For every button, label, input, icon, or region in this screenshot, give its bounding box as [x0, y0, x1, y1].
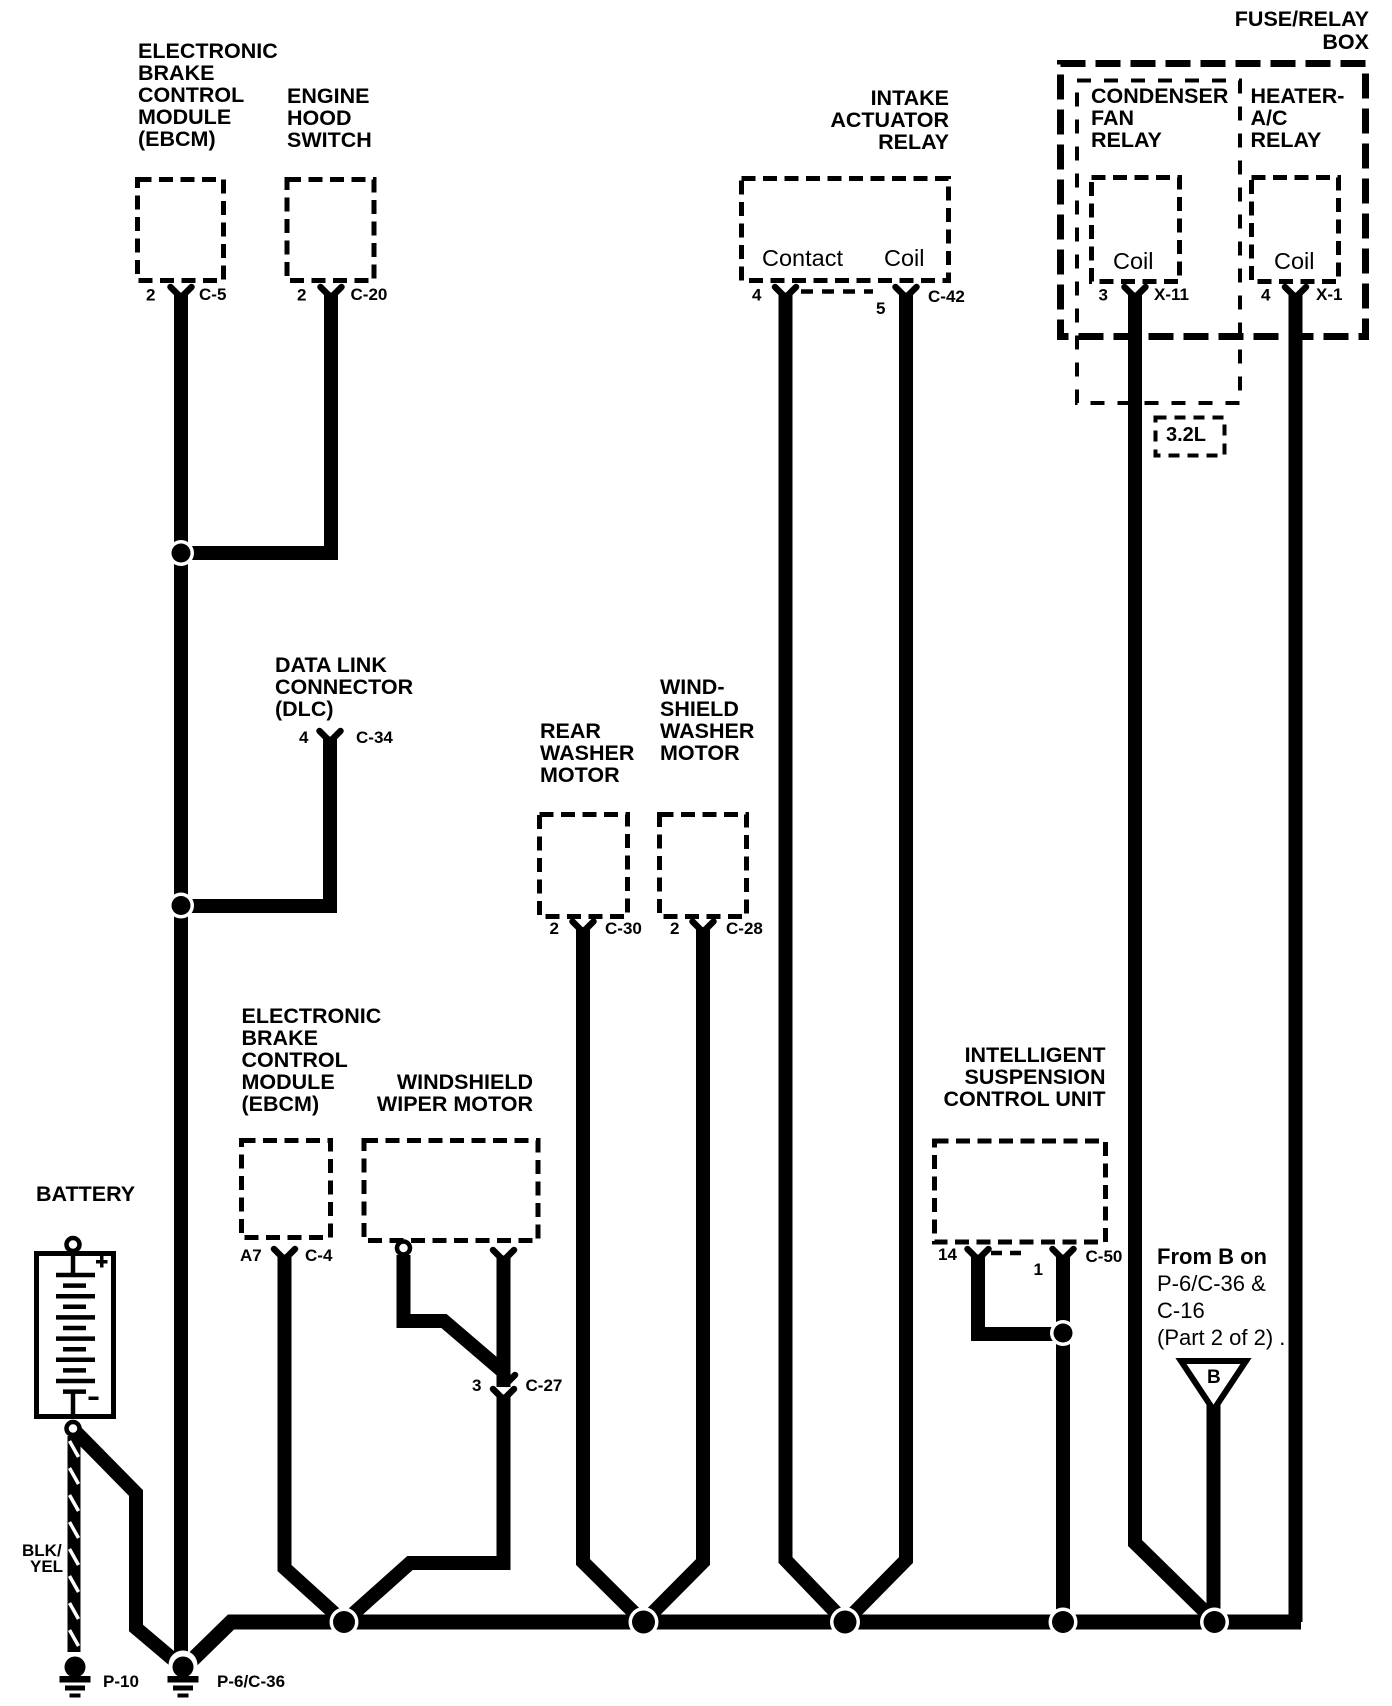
svg-text:CONTROL UNIT: CONTROL UNIT — [943, 1087, 1105, 1111]
wire wiper motor right pin down to connector C-27 — [497, 1261, 511, 1387]
svg-text:C-5: C-5 — [199, 285, 226, 304]
windshield wiper motor box (dashed) — [364, 1141, 538, 1241]
wiper motor right pin terminal Y — [493, 1250, 514, 1265]
svg-text:B: B — [1207, 1367, 1221, 1388]
condenser fan relay dashed sub-box with 3.2L extension — [1077, 81, 1240, 404]
label DATA LINK CONNECTOR (DLC) — [275, 653, 414, 721]
svg-text:A7: A7 — [240, 1246, 262, 1265]
connector C-28 terminal Y — [693, 922, 714, 937]
svg-text:2: 2 — [146, 286, 155, 305]
wire intake relay contact pin4 down diagonal to intake bus junction — [786, 298, 846, 1622]
svg-text:Contact: Contact — [762, 245, 843, 271]
svg-text:WASHER: WASHER — [540, 741, 635, 765]
svg-text:CONTROL: CONTROL — [242, 1048, 348, 1072]
condenser fan relay coil box (dashed) — [1092, 178, 1180, 282]
svg-text:SHIELD: SHIELD — [660, 697, 739, 721]
connector X-1 terminal Y — [1285, 287, 1306, 302]
svg-text:BOX: BOX — [1322, 30, 1369, 54]
wire from B triangle down to bus — [1207, 1405, 1221, 1622]
svg-text:4: 4 — [752, 286, 762, 305]
connector C-5 terminal Y — [171, 287, 192, 302]
EBCM module box (dashed) — [138, 180, 224, 281]
svg-text:X-1: X-1 — [1316, 285, 1342, 304]
ground symbol P-10 — [60, 1657, 91, 1698]
connector C-42 shell dashed bar — [801, 289, 873, 294]
svg-text:3: 3 — [1099, 286, 1108, 305]
svg-text:INTELLIGENT: INTELLIGENT — [965, 1043, 1106, 1067]
svg-text:MODULE: MODULE — [138, 105, 231, 129]
wire heater-A/C relay pin4 down to bus right end — [1289, 298, 1303, 1622]
svg-text:C-42: C-42 — [928, 287, 965, 306]
rear washer motor box (dashed) — [540, 815, 628, 917]
connector C-27 upper half right ear — [506, 1375, 515, 1384]
label INTAKE ACTUATOR RELAY — [830, 86, 949, 154]
svg-text:C-4: C-4 — [305, 1246, 333, 1265]
svg-text:WIND-: WIND- — [660, 675, 724, 699]
svg-text:ACTUATOR: ACTUATOR — [830, 108, 949, 132]
svg-text:CONNECTOR: CONNECTOR — [275, 675, 414, 699]
wire wiper motor left pin down, right, diagonal to C-27 — [404, 1255, 504, 1372]
heater-A/C relay coil box (dashed) — [1252, 178, 1339, 282]
3.2L engine variant dashed box — [1156, 418, 1225, 456]
connector C-30 terminal Y — [573, 922, 594, 937]
intelligent suspension control unit box (dashed) — [935, 1141, 1106, 1242]
label ENGINE HOOD SWITCH — [287, 84, 372, 152]
ground symbol P-6/C-36 — [168, 1651, 199, 1698]
svg-text:ELECTRONIC: ELECTRONIC — [138, 39, 278, 63]
junction dot B bus node — [1200, 1608, 1229, 1637]
label WINDSHIELD WASHER MOTOR — [660, 675, 755, 765]
connector X-11 terminal Y — [1125, 287, 1146, 302]
svg-text:Coil: Coil — [1113, 248, 1153, 274]
svg-text:3: 3 — [472, 1376, 481, 1395]
battery case box — [37, 1254, 114, 1417]
wire rear washer motor pin2 down diagonal to washer bus junction — [583, 932, 644, 1622]
svg-text:RELAY: RELAY — [1091, 128, 1162, 152]
wire engine hood switch pin2 down and left to EBCM wire junction — [181, 298, 331, 553]
label FUSE/RELAY BOX — [1235, 7, 1370, 54]
fuse/relay box outer dashed box — [1061, 64, 1366, 337]
junction dot intake bus node — [830, 1607, 860, 1637]
label ELECTRONIC BRAKE CONTROL MODULE (EBCM) top — [138, 39, 278, 151]
svg-text:P-6/C-36: P-6/C-36 — [217, 1672, 285, 1691]
label CONDENSER FAN RELAY — [1091, 84, 1229, 152]
svg-text:FUSE/RELAY: FUSE/RELAY — [1235, 7, 1369, 31]
svg-text:HOOD: HOOD — [287, 106, 352, 130]
svg-text:ENGINE: ENGINE — [287, 84, 369, 108]
connector C-27 lower half terminal Y — [493, 1389, 514, 1404]
svg-text:BRAKE: BRAKE — [242, 1026, 318, 1050]
svg-text:MOTOR: MOTOR — [540, 763, 620, 787]
svg-text:3.2L: 3.2L — [1166, 424, 1206, 446]
svg-text:WIPER MOTOR: WIPER MOTOR — [377, 1092, 534, 1116]
connector C-42 pin 5 terminal Y — [896, 287, 917, 302]
junction dot EBCM/hood switch — [168, 540, 194, 566]
svg-text:5: 5 — [876, 299, 885, 318]
svg-text:SWITCH: SWITCH — [287, 128, 372, 152]
battery plus sign — [96, 1256, 108, 1268]
engine hood switch box (dashed) — [287, 180, 374, 281]
svg-text:(Part 2 of 2) .: (Part 2 of 2) . — [1157, 1325, 1285, 1350]
ground bus horizontal wire — [188, 1622, 1301, 1664]
wire battery positive terminal to ground P-6/C-36 — [76, 1432, 175, 1661]
svg-text:P-6/C-36 &: P-6/C-36 & — [1157, 1271, 1266, 1296]
wire ISCU pin14 down and right to pin1 wire — [978, 1260, 1056, 1334]
wire DLC pin4 down and left to EBCM wire junction — [181, 742, 330, 906]
svg-text:HEATER-: HEATER- — [1251, 84, 1345, 108]
svg-text:(EBCM): (EBCM) — [242, 1092, 320, 1116]
svg-text:CONDENSER: CONDENSER — [1091, 84, 1229, 108]
svg-text:RELAY: RELAY — [878, 130, 949, 154]
battery internal cell plates — [56, 1253, 95, 1416]
wire lower EBCM pin A7 down diagonal to bus junction — [285, 1260, 345, 1622]
svg-text:FAN: FAN — [1091, 106, 1134, 130]
connector C-20 terminal Y — [321, 287, 342, 302]
note From B on P-6/C-36 and C-16 (Part 2 of 2) — [1157, 1244, 1285, 1350]
svg-text:(EBCM): (EBCM) — [138, 127, 216, 151]
label BLK/YEL wire color — [22, 1541, 63, 1576]
svg-text:YEL: YEL — [30, 1557, 63, 1576]
wire ISCU pin1 down to bus — [1056, 1260, 1070, 1622]
junction dot washer bus node — [629, 1607, 659, 1637]
svg-text:P-10: P-10 — [103, 1672, 139, 1691]
svg-text:14: 14 — [938, 1245, 957, 1264]
svg-text:C-20: C-20 — [351, 285, 388, 304]
svg-text:DATA LINK: DATA LINK — [275, 653, 387, 677]
label WINDSHIELD WIPER MOTOR — [377, 1070, 534, 1116]
connector C-50 pin 14 terminal Y — [968, 1249, 989, 1264]
svg-text:REAR: REAR — [540, 719, 601, 743]
svg-text:BATTERY: BATTERY — [36, 1182, 135, 1206]
wire BLK/YEL battery to ground P-10 — [68, 1436, 81, 1652]
wire EBCM pin2 down to ground P-6/C-36 — [174, 298, 188, 1658]
svg-text:C-27: C-27 — [526, 1376, 563, 1395]
svg-text:SUSPENSION: SUSPENSION — [965, 1065, 1106, 1089]
connector C-34 terminal Y — [320, 731, 341, 746]
intake actuator relay box (dashed) — [742, 179, 949, 281]
svg-text:A/C: A/C — [1251, 106, 1288, 130]
svg-text:C-16: C-16 — [1157, 1298, 1205, 1323]
svg-text:WASHER: WASHER — [660, 719, 755, 743]
label INTELLIGENT SUSPENSION CONTROL UNIT — [943, 1043, 1105, 1111]
label REAR WASHER MOTOR — [540, 719, 635, 787]
junction dot EBCM/DLC — [168, 893, 194, 919]
connector C-4 terminal Y — [274, 1249, 295, 1264]
svg-text:CONTROL: CONTROL — [138, 83, 244, 107]
junction dot left bus node — [330, 1608, 359, 1637]
label HEATER-A/C RELAY — [1251, 84, 1345, 152]
label ELECTRONIC BRAKE CONTROL MODULE (EBCM) lower — [242, 1004, 382, 1116]
svg-text:2: 2 — [297, 286, 306, 305]
svg-text:4: 4 — [299, 728, 309, 747]
wiper motor left pin open terminal — [397, 1242, 410, 1255]
BLK/YEL wire hash marks — [70, 1441, 79, 1646]
svg-text:X-11: X-11 — [1154, 285, 1189, 304]
svg-text:WINDSHIELD: WINDSHIELD — [397, 1070, 533, 1094]
svg-text:2: 2 — [670, 919, 679, 938]
svg-text:Coil: Coil — [1274, 248, 1314, 274]
svg-text:2: 2 — [550, 919, 559, 938]
svg-text:From B on: From B on — [1157, 1244, 1267, 1269]
svg-text:C-50: C-50 — [1086, 1247, 1123, 1266]
battery positive terminal circle — [67, 1238, 80, 1251]
wire windshield washer motor pin2 down diagonal to washer bus junction — [644, 932, 704, 1622]
wire intake relay coil pin5 down diagonal to intake bus junction — [845, 298, 906, 1622]
connector C-50 pin 1 terminal Y — [1053, 1249, 1074, 1264]
triangle reference B — [1181, 1361, 1246, 1410]
svg-text:MODULE: MODULE — [242, 1070, 335, 1094]
svg-text:C-34: C-34 — [356, 728, 393, 747]
battery minus sign — [89, 1397, 99, 1401]
battery negative terminal circle — [67, 1422, 80, 1435]
svg-text:1: 1 — [1034, 1260, 1043, 1279]
svg-text:C-30: C-30 — [605, 919, 642, 938]
svg-text:(DLC): (DLC) — [275, 697, 334, 721]
svg-text:INTAKE: INTAKE — [871, 86, 949, 110]
svg-text:Coil: Coil — [884, 245, 924, 271]
connector C-42 pin 4 terminal Y — [775, 287, 796, 302]
svg-text:MOTOR: MOTOR — [660, 741, 740, 765]
windshield washer motor box (dashed) — [660, 815, 747, 917]
svg-text:4: 4 — [1261, 286, 1271, 305]
connector C-50 shell dashed bar — [991, 1251, 1023, 1256]
svg-text:BRAKE: BRAKE — [138, 61, 214, 85]
lower EBCM box (dashed) — [242, 1141, 331, 1238]
wire condenser fan relay pin3 down diagonal to B bus junction — [1135, 298, 1215, 1621]
svg-text:C-28: C-28 — [726, 919, 763, 938]
svg-text:RELAY: RELAY — [1251, 128, 1322, 152]
svg-text:ELECTRONIC: ELECTRONIC — [242, 1004, 382, 1028]
junction dot ISCU pin14/pin1 — [1050, 1320, 1076, 1346]
junction dot ISCU bus node — [1049, 1608, 1078, 1637]
wire C-27 down, left, diagonal to left bus junction — [344, 1398, 504, 1622]
